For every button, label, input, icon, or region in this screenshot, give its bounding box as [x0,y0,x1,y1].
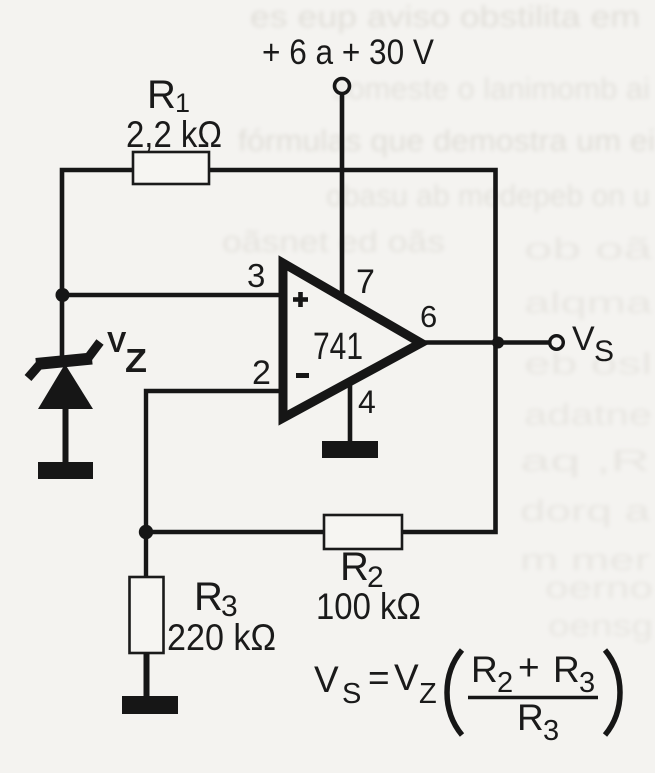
svg-text:Z: Z [125,342,147,379]
svg-text:oensg: oensg [548,608,653,643]
label R1 [147,73,190,118]
label VS [572,320,614,368]
output node junction dot [492,337,504,349]
label R3 [194,575,238,623]
svg-text:R: R [194,575,223,619]
svg-text:4: 4 [358,384,376,420]
wire: node B down to R3 [144,532,148,578]
svg-text:dorq a: dorq a [520,493,651,528]
svg-text:R: R [517,697,544,738]
zener diode VZ cathode bar [28,342,100,378]
svg-text:V: V [107,327,127,359]
svg-text:oãsnet ed oãs: oãsnet ed oãs [222,224,445,259]
label R2 [340,545,384,594]
svg-text:es eup aviso obstilita em: es eup aviso obstilita em [250,0,640,34]
svg-text:S: S [342,678,361,710]
output terminal VS (open circle) [550,336,564,350]
page bleed-through text (decorative, faint) [222,0,655,643]
ground symbol (pin 4) [322,441,378,458]
svg-text:obasu ab medepeb on u: obasu ab medepeb on u [326,178,650,213]
resistor R3 (body) [130,577,164,653]
svg-text:R: R [553,649,580,690]
wire: R3 to ground [144,653,150,698]
svg-text:ob oã: ob oã [524,231,653,266]
wire: main loop (left branch, top rail through R1, right branch, feedback rail through R2) [62,170,496,532]
formula VS = VZ ((R2+R3)/R3) [314,647,620,747]
svg-text:2: 2 [497,667,513,699]
wire: op-amp pin 3 input from node A [62,293,282,297]
svg-text:2,2 kΩ: 2,2 kΩ [126,114,222,155]
op-amp minus input marker [296,373,309,378]
ground symbol (zener) [38,462,93,479]
wire: output pin 6 to VS terminal [420,340,549,345]
svg-text:3: 3 [247,257,265,294]
svg-text:3: 3 [543,715,559,747]
svg-text:3: 3 [579,667,595,699]
svg-text:R: R [147,73,176,117]
resistor R2 (body) [324,515,402,549]
svg-text:220 kΩ: 220 kΩ [167,617,276,658]
zener diode VZ anode triangle [38,364,93,409]
power terminal (open circle) [335,79,350,94]
svg-text:100 kΩ: 100 kΩ [316,586,421,627]
label VZ [107,327,147,379]
node A junction dot [56,288,70,302]
op-amp U1 741 (triangle) [283,263,421,418]
svg-text:741: 741 [313,326,363,368]
svg-text:R: R [340,545,369,589]
svg-text:Z: Z [419,678,437,710]
svg-text:someste o lanimomb ai: someste o lanimomb ai [332,71,650,106]
wire: op-amp pin 2 input down to feedback node B [146,391,282,532]
wire: zener to ground [63,408,69,464]
power rail label +6 a +30 V [262,33,435,72]
ground symbol (R3) [122,696,178,714]
wire: V+ supply down to op-amp pin 7 [340,94,345,303]
svg-text:oerno: oerno [545,570,653,605]
svg-text:V: V [314,659,339,700]
svg-text:7: 7 [356,263,375,301]
op-amp plus input marker [293,292,308,307]
svg-text:aq ,R: aq ,R [520,443,650,478]
svg-text:6: 6 [420,299,437,334]
svg-text:2: 2 [252,354,271,392]
svg-text:alqma: alqma [524,285,653,320]
svg-text:+ 6 a + 30 V: + 6 a + 30 V [262,33,435,72]
svg-text:fórmulas que demostra um ei: fórmulas que demostra um ei [238,123,655,158]
svg-text:adatne: adatne [524,397,652,432]
node B junction dot [139,525,153,539]
resistor R1 (body) [133,152,209,184]
svg-text:V: V [394,657,419,698]
svg-text:+: + [518,647,540,688]
wire: op-amp pin 4 to ground [348,380,353,443]
svg-text:S: S [594,335,614,368]
svg-text:=: = [368,657,390,698]
svg-text:V: V [572,320,595,358]
svg-text:R: R [471,649,498,690]
